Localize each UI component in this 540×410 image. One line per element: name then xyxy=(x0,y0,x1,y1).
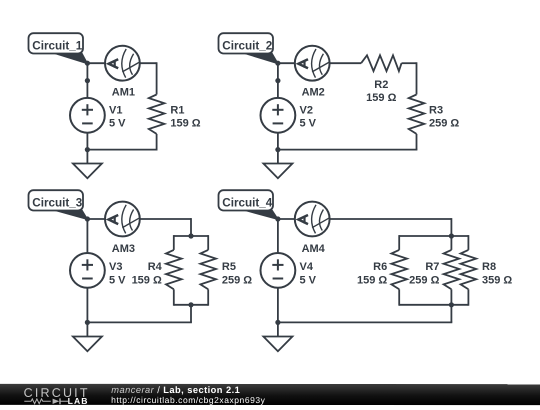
voltage source V4 xyxy=(261,253,296,288)
node bottom xyxy=(275,320,280,325)
footer url line xyxy=(111,396,265,405)
wire R7 top stub xyxy=(450,236,452,250)
svg-text:5 V: 5 V xyxy=(300,117,317,129)
wire R6 bottom stub xyxy=(398,289,400,305)
wire node to AM4 xyxy=(278,218,295,220)
wire V2 to ground xyxy=(277,133,279,164)
wire R6 top stub xyxy=(398,235,400,250)
wire R2 to corner xyxy=(402,62,417,64)
node bank top xyxy=(449,233,454,238)
wire bank down xyxy=(190,305,192,323)
svg-text:R5: R5 xyxy=(222,261,236,273)
wire R7 bottom stub xyxy=(450,289,452,305)
footer bar xyxy=(0,384,540,405)
wire node to V4 xyxy=(277,219,279,253)
resistor R5 xyxy=(200,250,216,289)
svg-text:AM1: AM1 xyxy=(112,86,135,98)
wire AM2 to R2 xyxy=(330,62,362,64)
svg-text:5 V: 5 V xyxy=(109,274,126,286)
svg-text:259 Ω: 259 Ω xyxy=(409,274,439,286)
resistor R1 xyxy=(149,95,165,134)
wire bottom bar xyxy=(174,304,208,306)
svg-text:V1: V1 xyxy=(109,104,122,116)
svg-text:159 Ω: 159 Ω xyxy=(366,92,396,104)
svg-text:AM4: AM4 xyxy=(302,243,326,255)
ground xyxy=(263,164,292,179)
wire top bar xyxy=(399,235,468,237)
resistor R7 xyxy=(444,250,460,289)
wire node to AM2 xyxy=(278,62,295,64)
svg-text:V2: V2 xyxy=(300,104,313,116)
wire R5 top stub xyxy=(207,235,209,250)
svg-text:259 Ω: 259 Ω xyxy=(222,274,252,286)
svg-text:259 Ω: 259 Ω xyxy=(429,118,459,130)
wire R8 top stub xyxy=(467,235,469,250)
wire node to AM1 xyxy=(87,62,105,64)
wire down to R1 xyxy=(156,62,158,94)
wire node to V1 xyxy=(86,63,88,98)
svg-text:AM2: AM2 xyxy=(302,86,325,98)
ammeter AM1 xyxy=(105,46,140,81)
node bottom xyxy=(85,147,90,152)
svg-text:R7: R7 xyxy=(425,261,439,273)
ammeter AM4 xyxy=(295,202,330,237)
wire V1 to ground xyxy=(86,133,88,164)
wire AM4 to corner xyxy=(330,218,452,220)
wire bank down xyxy=(450,305,452,323)
svg-text:5 V: 5 V xyxy=(300,274,317,286)
junction dot xyxy=(275,78,280,83)
wire R4 bottom stub xyxy=(173,289,175,305)
svg-text:R2: R2 xyxy=(374,79,388,91)
svg-text:AM3: AM3 xyxy=(112,243,135,255)
voltage source V2 xyxy=(261,98,296,133)
footer title line xyxy=(111,385,240,394)
wire bottom rail xyxy=(278,321,452,323)
node bottom xyxy=(275,147,280,152)
wire R5 bottom stub xyxy=(207,289,209,305)
wire node to V2 xyxy=(277,63,279,98)
resistor R2 xyxy=(361,55,401,71)
wire R8 bottom stub xyxy=(467,289,469,305)
wire corner down to bank xyxy=(190,218,192,236)
node bank top xyxy=(188,233,193,238)
svg-text:159 Ω: 159 Ω xyxy=(170,117,200,129)
svg-text:359 Ω: 359 Ω xyxy=(482,274,512,286)
net flag label Circuit_4 xyxy=(219,190,278,220)
node at flag xyxy=(85,216,90,221)
ground xyxy=(73,164,102,179)
svg-text:5 V: 5 V xyxy=(109,117,126,129)
ground xyxy=(263,337,292,352)
svg-text:V4: V4 xyxy=(300,261,314,273)
wire V3 to ground xyxy=(86,288,88,337)
ammeter AM2 xyxy=(295,46,330,81)
svg-text:R3: R3 xyxy=(429,104,443,116)
node bank bottom xyxy=(449,302,454,307)
node at flag xyxy=(275,61,280,66)
ammeter AM3 xyxy=(105,202,140,237)
svg-text:159 Ω: 159 Ω xyxy=(357,274,387,286)
net flag label Circuit_3 xyxy=(29,190,88,220)
wire node to V3 xyxy=(86,219,88,253)
wire R4 top stub xyxy=(173,235,175,250)
svg-text:Circuit_2: Circuit_2 xyxy=(222,39,273,52)
wire bottom bar xyxy=(399,304,468,306)
resistor R3 xyxy=(409,95,425,134)
CircuitLab logo wordmark xyxy=(24,386,90,399)
voltage source V3 xyxy=(70,253,105,288)
wire corner down to R3 xyxy=(416,62,418,94)
svg-text:R6: R6 xyxy=(373,261,387,273)
net flag label Circuit_2 xyxy=(219,33,278,64)
logo schematic icon xyxy=(24,398,70,405)
svg-text:V3: V3 xyxy=(109,261,122,273)
ground xyxy=(73,337,102,352)
resistor R4 xyxy=(166,250,182,289)
svg-text:R4: R4 xyxy=(148,261,163,273)
wire bottom rail xyxy=(87,149,157,151)
wire AM3 to corner xyxy=(140,218,191,220)
node at flag xyxy=(275,216,280,221)
wire R1 to bottom rail xyxy=(156,134,158,150)
voltage source V1 xyxy=(70,98,105,133)
node at flag xyxy=(85,61,90,66)
wire bottom rail xyxy=(87,321,191,323)
wire top bar xyxy=(174,235,208,237)
wire bottom rail xyxy=(278,149,418,151)
svg-text:R8: R8 xyxy=(482,261,496,273)
svg-text:Circuit_4: Circuit_4 xyxy=(222,196,273,209)
svg-text:Circuit_1: Circuit_1 xyxy=(32,39,83,52)
net flag label Circuit_1 xyxy=(29,33,88,64)
junction dot xyxy=(85,78,90,83)
node bottom xyxy=(85,320,90,325)
wire AM1 to corner xyxy=(140,62,157,64)
wire node to AM3 xyxy=(87,218,105,220)
wire R3 to bottom rail xyxy=(416,134,418,150)
svg-text:159 Ω: 159 Ω xyxy=(132,274,162,286)
resistor R6 xyxy=(391,250,407,289)
logo LAB text xyxy=(68,397,89,406)
wire V4 to ground xyxy=(277,288,279,337)
svg-text:R1: R1 xyxy=(170,104,184,116)
wire corner down to bank xyxy=(450,218,452,236)
svg-text:Circuit_3: Circuit_3 xyxy=(32,196,83,209)
resistor R8 xyxy=(461,250,477,289)
node bank bottom xyxy=(188,302,193,307)
